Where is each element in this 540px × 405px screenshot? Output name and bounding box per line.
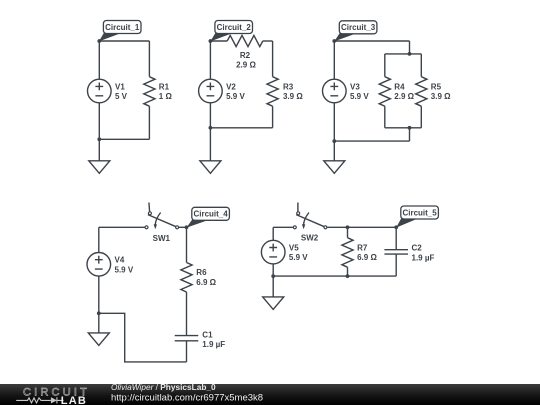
svg-text:V1: V1 <box>115 82 125 91</box>
ground circuit 4 <box>88 333 109 346</box>
wire bottom rail circuit 3 <box>334 140 409 142</box>
wire to ground circuit 1 <box>98 139 100 161</box>
wire C2 top lead <box>395 227 397 249</box>
svg-text:Circuit_5: Circuit_5 <box>402 208 437 217</box>
svg-text:C1: C1 <box>202 330 213 339</box>
node label Circuit_3 callout <box>334 21 377 42</box>
C1 value label <box>202 330 225 349</box>
junction dot parallel top <box>408 52 412 56</box>
wire right column circuit 1 (to R1) <box>148 41 150 77</box>
wire R1 bottom to rail <box>148 106 150 139</box>
wire bottom rail circuit 2 <box>210 127 272 129</box>
junction dot circuit 4 anchor <box>185 225 189 229</box>
V1 value label <box>115 82 128 101</box>
V3 value label <box>350 82 369 101</box>
svg-text:6.9 Ω: 6.9 Ω <box>357 253 377 262</box>
svg-text:5 V: 5 V <box>115 92 128 101</box>
svg-text:2.9 Ω: 2.9 Ω <box>394 92 414 101</box>
wire C1 bottom to bottom rail <box>186 341 188 362</box>
wire C2 bottom lead <box>395 254 397 276</box>
wire parallel top bar <box>385 53 422 55</box>
wire stem parallel to bottom rail <box>409 128 411 141</box>
svg-text:C2: C2 <box>412 244 423 253</box>
wire left branch lower lead <box>384 106 386 128</box>
logo schematic line with resistor and diode <box>16 397 63 403</box>
svg-text:SW2: SW2 <box>301 234 319 243</box>
junction dot circuit 4 bottom <box>97 311 101 315</box>
svg-text:R5: R5 <box>431 82 442 91</box>
switch SW2 <box>293 203 327 230</box>
voltage source V5 <box>261 240 285 264</box>
svg-text:R4: R4 <box>394 82 405 91</box>
wire R2 right to corner <box>263 40 273 42</box>
resistor R6 <box>181 263 192 293</box>
ground circuit 2 <box>200 161 221 174</box>
resistor R5 <box>416 77 427 107</box>
svg-text:1.9 µF: 1.9 µF <box>412 253 435 262</box>
wire R3 bottom to rail <box>272 106 274 128</box>
voltage source V3 <box>323 79 347 103</box>
junction dot circuit 1 anchor <box>97 39 101 43</box>
wire top rail V4 to switch <box>99 226 145 228</box>
wire R7 junction to C2 corner <box>348 226 397 228</box>
wire R7 bottom lead <box>347 267 349 276</box>
resistor R4 <box>379 77 390 107</box>
wire right branch lower lead <box>420 106 422 128</box>
voltage source V4 <box>87 252 111 276</box>
wire bottom rail circuit 5 <box>273 275 396 277</box>
wire left column circuit 2 (to V2) <box>209 41 211 79</box>
wire junction down to R6 <box>186 227 188 262</box>
R7 value label <box>357 243 377 262</box>
svg-text:R1: R1 <box>159 82 170 91</box>
wire parallel bottom bar <box>385 127 422 129</box>
junction dot circuit 3 anchor <box>332 39 336 43</box>
svg-text:V5: V5 <box>289 243 299 252</box>
node label Circuit_4 callout <box>187 207 230 227</box>
svg-text:OliviaWiper / PhysicsLab_0: OliviaWiper / PhysicsLab_0 <box>111 382 216 392</box>
junction dot R7 bottom <box>346 274 350 278</box>
R4 value label <box>394 82 414 101</box>
resistor R3 <box>267 77 278 107</box>
svg-text:R3: R3 <box>283 82 294 91</box>
svg-text:R7: R7 <box>357 243 368 252</box>
svg-text:R6: R6 <box>196 268 207 277</box>
wire down to parallel top bar <box>409 41 411 54</box>
wire right column circuit 2 (to R3) <box>272 41 274 77</box>
R1 value label <box>159 82 173 101</box>
node label Circuit_2 callout <box>210 21 252 42</box>
svg-text:Circuit_4: Circuit_4 <box>193 210 228 219</box>
svg-text:1 Ω: 1 Ω <box>159 92 173 101</box>
junction dot parallel bottom <box>408 126 412 130</box>
svg-text:3.9 Ω: 3.9 Ω <box>283 92 303 101</box>
junction dot circuit 2 bottom <box>209 126 213 130</box>
junction dot circuit 2 anchor <box>209 39 213 43</box>
wire bottom rail circuit 4 <box>99 313 187 362</box>
wire V3 bottom to rail <box>333 103 335 141</box>
switch SW1 <box>145 203 179 230</box>
R5 value label <box>431 82 451 101</box>
svg-text:5.9 V: 5.9 V <box>350 92 369 101</box>
wire right branch upper lead <box>420 54 422 77</box>
junction dot circuit 5 bottom <box>271 274 275 278</box>
wire to ground circuit 3 <box>333 141 335 161</box>
junction dot circuit 1 bottom <box>97 137 101 141</box>
wire switch to junction <box>179 226 187 228</box>
wire V2 bottom to rail <box>209 103 211 128</box>
node label Circuit_1 callout <box>99 21 141 42</box>
svg-text:Circuit_3: Circuit_3 <box>341 23 376 32</box>
R2 value label <box>236 51 256 70</box>
svg-text:LAB: LAB <box>61 395 87 405</box>
V4 value label <box>115 256 134 275</box>
wire V4 bottom to junction <box>98 276 100 313</box>
voltage source V1 <box>88 79 112 103</box>
wire to ground circuit 2 <box>209 128 211 161</box>
V2 value label <box>226 82 245 101</box>
wire top rail circuit 1 <box>99 40 149 42</box>
wire top rail V5 to switch <box>273 226 293 228</box>
svg-text:V3: V3 <box>350 82 360 91</box>
ground circuit 1 <box>89 161 110 174</box>
wire switch to R7 junction <box>327 226 347 228</box>
ground circuit 5 <box>263 297 284 310</box>
wire R7 top lead <box>347 227 349 237</box>
svg-text:Circuit_1: Circuit_1 <box>105 23 140 32</box>
wire bottom rail circuit 1 <box>99 138 149 140</box>
voltage source V2 <box>199 79 223 103</box>
wire V1 bottom to rail <box>98 103 100 140</box>
node label Circuit_5 callout <box>396 206 438 228</box>
R6 value label <box>196 268 216 287</box>
wire to ground circuit 5 <box>272 276 274 297</box>
svg-text:5.9 V: 5.9 V <box>115 265 134 274</box>
resistor R2 <box>227 35 263 46</box>
svg-text:Circuit_2: Circuit_2 <box>217 23 252 32</box>
wire R6 to C1 <box>186 292 188 336</box>
ground circuit 3 <box>324 161 345 174</box>
wire left branch upper lead <box>384 54 386 77</box>
wire V5 bottom to rail <box>272 264 274 276</box>
svg-text:6.9 Ω: 6.9 Ω <box>196 278 216 287</box>
svg-text:1.9 µF: 1.9 µF <box>202 340 225 349</box>
C2 value label <box>412 244 435 263</box>
svg-text:R2: R2 <box>240 51 251 60</box>
resistor R7 <box>342 238 353 268</box>
wire anchor to R2 left <box>210 40 227 42</box>
wire top rail circuit 3 <box>334 40 409 42</box>
svg-text:http://circuitlab.com/cr6977x5: http://circuitlab.com/cr6977x5me3k8 <box>111 392 263 403</box>
R3 value label <box>283 82 303 101</box>
capacitor C2 <box>384 250 408 254</box>
wire left column circuit 3 (to V3) <box>333 41 335 79</box>
wire left column circuit 4 (to V4) <box>98 227 100 252</box>
svg-text:2.9 Ω: 2.9 Ω <box>236 61 256 70</box>
capacitor C1 <box>175 336 199 341</box>
svg-text:5.9 V: 5.9 V <box>226 92 245 101</box>
svg-text:V4: V4 <box>115 256 125 265</box>
junction dot R7 top <box>346 225 350 229</box>
wire to ground circuit 4 <box>98 313 100 333</box>
svg-text:V2: V2 <box>226 82 236 91</box>
svg-text:SW1: SW1 <box>153 234 171 243</box>
junction dot circuit 3 bottom <box>332 139 336 143</box>
svg-text:3.9 Ω: 3.9 Ω <box>431 92 451 101</box>
junction dot circuit 5 anchor <box>394 225 398 229</box>
resistor R1 <box>144 77 155 107</box>
wire left column circuit 1 (to V1) <box>98 41 100 79</box>
V5 value label <box>289 243 308 262</box>
svg-text:5.9 V: 5.9 V <box>289 253 308 262</box>
wire left column circuit 5 (to V5) <box>272 227 274 240</box>
